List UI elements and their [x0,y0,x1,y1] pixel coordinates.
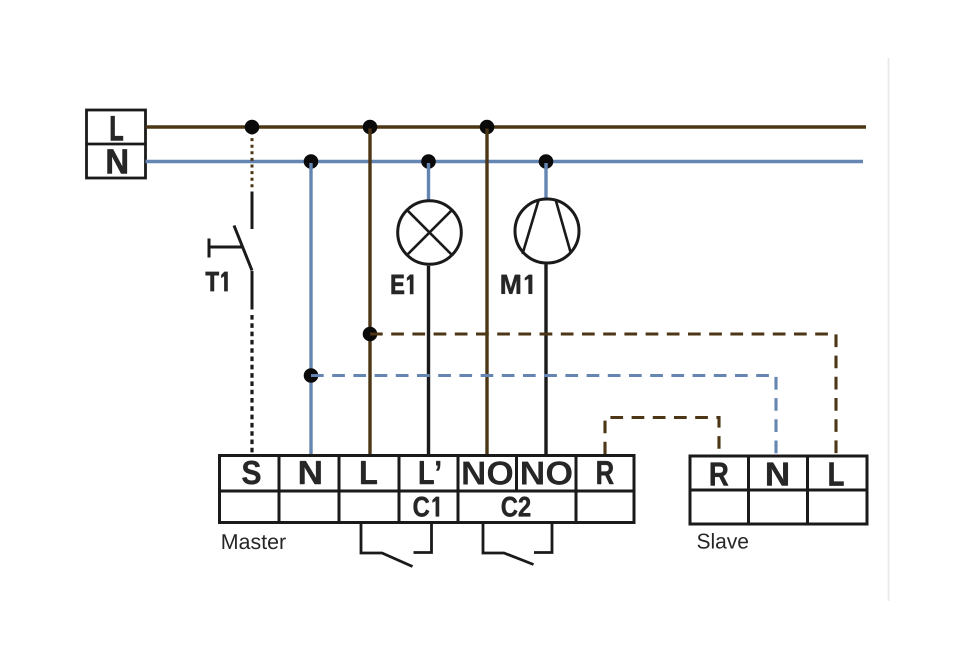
wire L line to terminal NO (brown) [485,129,488,455]
wire dashed Master R to Slave R [605,418,719,455]
terminal label S [242,461,260,485]
node N-M1 [539,154,554,169]
wire L line (brown) [146,125,867,129]
wire N to E1 [427,163,430,201]
wire N to M1 [544,163,547,198]
node L dashed branch [363,327,378,342]
wire E1 to terminal L' [427,266,430,455]
label Master [223,534,286,549]
node L-T1 [245,120,260,135]
motor M1 (fan) [515,199,579,263]
switch contact C2 [483,523,552,565]
slave terminal label R [711,463,729,486]
label Slave [698,533,749,549]
wire T1 to terminal S (dotted) [250,315,253,455]
label C2 [502,497,530,517]
wire dashed brown L to Slave L [370,334,836,454]
node L-NO [480,120,495,135]
node N-E1 [421,154,436,169]
terminal label NO 1 [463,461,512,485]
terminal label N [300,461,321,484]
wire M1 to terminal NO [544,264,547,454]
supply terminal box L/N [87,110,146,178]
wire dashed blue N to Slave N [311,376,776,455]
terminal label L' [420,461,440,484]
terminal label R [597,461,613,484]
terminal label L [361,461,377,484]
label E1 [392,275,413,294]
label C1 [414,497,439,517]
terminal block Master [220,456,635,523]
node N dashed branch [304,368,319,383]
wire L drop to terminal L [368,129,371,455]
lamp E1 [398,201,462,265]
slave terminal label N [767,463,788,486]
wire L to T1 (brown dotted) [251,132,254,189]
label M1 [502,275,533,294]
terminal label NO 2 [522,461,572,485]
wire N line (blue) [146,160,864,164]
node N-N [304,154,319,169]
wire N drop to terminal N [309,163,312,455]
terminal block Slave [690,456,867,524]
slave terminal label L [830,463,844,486]
switch contact C1 [361,523,432,567]
node L-L [363,120,378,135]
label T1 [206,272,228,291]
switch T1 [209,192,252,310]
